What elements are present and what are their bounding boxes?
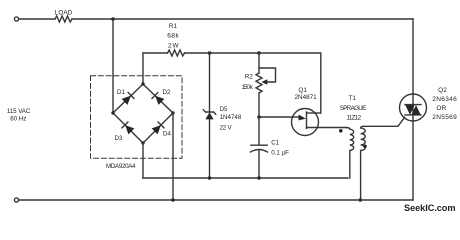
label 115 VAC 60 Hz <box>7 108 31 122</box>
terminal top-left <box>14 17 18 21</box>
svg-text:2N6346: 2N6346 <box>432 96 457 103</box>
transformer T1 primary <box>346 128 354 179</box>
diode D4 <box>140 110 176 146</box>
zener diode D5 <box>203 53 242 178</box>
node bridge top vertex <box>141 82 144 85</box>
svg-text:6.8 k: 6.8 k <box>167 33 179 40</box>
label MDA920A4 <box>106 163 136 170</box>
wire gate <box>363 117 404 126</box>
wire AC2 from bridge right vertex to bottom rail <box>172 113 174 200</box>
node junction secondary bottom <box>359 198 363 202</box>
wire DC- drop from bridge bottom vertex <box>142 143 144 178</box>
triac Q2 <box>400 87 458 121</box>
svg-text:2N4871: 2N4871 <box>295 94 318 101</box>
transistor Q1 unijunction <box>292 87 347 135</box>
diode D1 <box>110 81 147 117</box>
svg-text:D4: D4 <box>163 131 171 138</box>
diode D2 <box>140 81 177 117</box>
label T1 SPRAGUE 11Z12 <box>340 95 367 121</box>
node junction D5 top <box>208 51 212 55</box>
node bridge bottom vertex <box>141 141 144 144</box>
resistor LOAD <box>55 10 73 23</box>
svg-text:115 VAC: 115 VAC <box>7 108 31 115</box>
svg-text:2 W: 2 W <box>168 43 179 50</box>
wire + rail <box>143 53 321 113</box>
resistor R1 <box>167 23 184 56</box>
svg-text:0.1 µF: 0.1 µF <box>271 149 289 156</box>
svg-text:C1: C1 <box>271 140 279 147</box>
label D4 <box>163 131 171 138</box>
bridge module dashed box <box>91 76 183 159</box>
svg-text:OR: OR <box>436 105 446 112</box>
terminal bottom-left <box>14 198 18 202</box>
label D2 <box>163 89 171 96</box>
wire emitter <box>259 116 293 118</box>
potentiometer R2 <box>242 53 276 117</box>
T1 secondary phasing dot <box>363 145 367 149</box>
svg-text:LOAD: LOAD <box>55 10 73 17</box>
wire top rail <box>19 18 413 20</box>
node junction emitter tap <box>257 115 261 119</box>
T1 primary phasing dot <box>339 129 343 133</box>
transformer T1 secondary <box>361 126 366 200</box>
svg-text:MDA920A4: MDA920A4 <box>106 163 136 170</box>
wire DC- rail <box>143 177 348 179</box>
svg-text:R1: R1 <box>169 23 178 30</box>
svg-text:22 V: 22 V <box>220 125 233 132</box>
node junction C1 bottom <box>257 176 261 180</box>
node bridge left vertex <box>111 111 114 114</box>
node junction AC2 bottom <box>171 198 175 202</box>
wire DC+ drop from R1 rail to bridge top <box>142 53 144 84</box>
svg-text:2N5569: 2N5569 <box>432 114 457 121</box>
wire right rail <box>412 19 414 200</box>
node junction top AC tap <box>111 17 115 21</box>
svg-text:150 k: 150 k <box>242 84 254 91</box>
label D3 <box>115 135 123 142</box>
svg-text:D3: D3 <box>115 135 123 142</box>
label D1 <box>117 89 125 96</box>
svg-text:11Z12: 11Z12 <box>347 114 362 121</box>
wire bottom rail <box>19 199 413 201</box>
node junction D5 bottom <box>208 176 212 180</box>
svg-text:R2: R2 <box>245 73 253 80</box>
node junction R2 top <box>257 51 261 55</box>
watermark SeekIC.com <box>404 203 456 213</box>
svg-text:SPRAGUE: SPRAGUE <box>340 105 367 112</box>
svg-text:D5: D5 <box>220 106 228 113</box>
node bridge right vertex <box>171 111 174 114</box>
svg-text:SeekIC.com: SeekIC.com <box>404 203 456 213</box>
svg-text:Q2: Q2 <box>438 87 447 94</box>
svg-text:D1: D1 <box>117 89 125 96</box>
svg-text:D2: D2 <box>163 89 171 96</box>
svg-text:1N4748: 1N4748 <box>220 114 242 121</box>
diode D3 <box>110 110 146 146</box>
svg-text:60 Hz: 60 Hz <box>10 116 26 123</box>
svg-text:T1: T1 <box>349 95 357 102</box>
wire AC1 drop to bridge <box>112 19 114 113</box>
capacitor C1 <box>251 117 290 178</box>
